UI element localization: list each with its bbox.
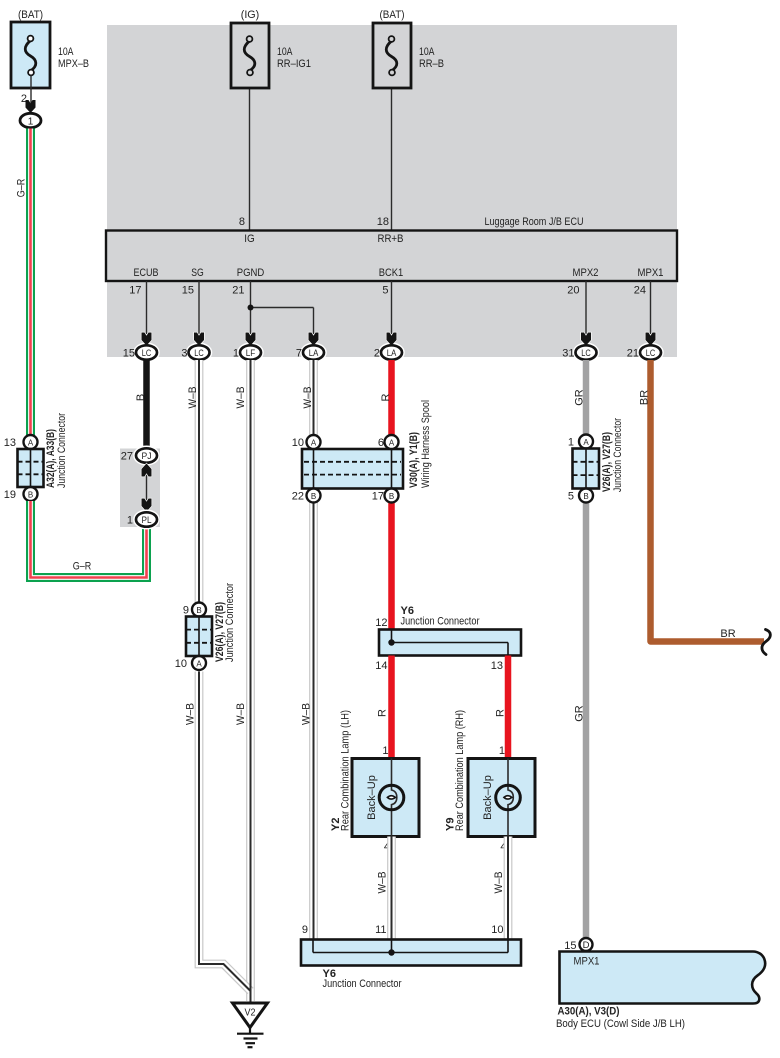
- svg-text:V2: V2: [245, 1008, 256, 1019]
- ground V2: [233, 1003, 268, 1047]
- svg-text:A30(A), V3(D): A30(A), V3(D): [558, 1006, 620, 1018]
- svg-text:W–B: W–B: [377, 872, 389, 894]
- svg-text:BR: BR: [639, 390, 651, 405]
- svg-text:W–B: W–B: [235, 703, 247, 725]
- svg-text:RR–B: RR–B: [419, 58, 444, 70]
- Luggage Room J/B ECU gray background: [107, 25, 677, 357]
- wire W-B below Y2: [387, 837, 396, 941]
- svg-text:LC: LC: [142, 348, 152, 358]
- connector oval 3 LC: [189, 345, 210, 359]
- svg-text:10: 10: [491, 924, 503, 936]
- svg-text:8: 8: [239, 216, 245, 228]
- svg-text:LA: LA: [309, 348, 319, 358]
- PGND center line over merge: [250, 964, 252, 1002]
- wire BCK1 pin to arrow: [391, 281, 393, 334]
- svg-text:W–B: W–B: [302, 387, 314, 409]
- rear combination lamp RH Y9: [444, 710, 535, 853]
- wire break symbol: [762, 630, 770, 655]
- svg-text:D: D: [583, 940, 590, 951]
- Y6 junction connector (bottom): [301, 924, 521, 990]
- svg-text:1: 1: [568, 437, 574, 449]
- svg-text:(BAT): (BAT): [380, 9, 405, 21]
- svg-text:W–B: W–B: [185, 703, 197, 725]
- svg-text:10: 10: [292, 437, 304, 449]
- svg-text:A: A: [196, 660, 202, 669]
- wire W-B from SG: [195, 360, 204, 603]
- svg-text:B: B: [311, 492, 316, 501]
- svg-text:Rear Combination Lamp (LH): Rear Combination Lamp (LH): [339, 710, 351, 831]
- svg-text:21: 21: [232, 285, 244, 297]
- svg-text:GR: GR: [574, 705, 586, 722]
- wire fuse3 to RR+B pin: [391, 76, 393, 230]
- svg-text:BCK1: BCK1: [379, 267, 404, 279]
- svg-text:G–R: G–R: [16, 179, 28, 198]
- svg-text:ECUB: ECUB: [134, 267, 159, 279]
- svg-text:15: 15: [123, 348, 135, 360]
- svg-text:17: 17: [372, 491, 384, 503]
- svg-text:R: R: [380, 393, 392, 401]
- svg-text:10A: 10A: [419, 46, 435, 58]
- svg-text:9: 9: [183, 605, 189, 617]
- svg-text:Wiring Harness Spool: Wiring Harness Spool: [420, 400, 432, 488]
- arrow into connector 1 LF: [246, 333, 256, 346]
- svg-text:R: R: [377, 709, 389, 717]
- svg-text:A: A: [583, 438, 589, 447]
- white halos for connector ovals: [136, 345, 661, 359]
- svg-text:R: R: [495, 709, 507, 717]
- D pin circle 15: [564, 938, 592, 952]
- PJ PL connector pair with shade: [120, 448, 160, 527]
- arrow into connector 3 LC: [194, 333, 204, 346]
- svg-text:Junction Connector: Junction Connector: [401, 616, 480, 628]
- svg-text:Rear Combination Lamp (RH): Rear Combination Lamp (RH): [454, 710, 466, 831]
- svg-text:W–B: W–B: [187, 387, 199, 409]
- arrows into connectors row: [142, 333, 656, 346]
- wire PGND pin to arrow with branch: [250, 281, 252, 334]
- junction dot PGND branch: [248, 305, 254, 311]
- svg-text:Junction Connector: Junction Connector: [56, 413, 68, 488]
- svg-text:1: 1: [28, 117, 34, 128]
- G-R wire from fuse1 down to junction connector: [26, 129, 35, 436]
- svg-text:Back–Up: Back–Up: [366, 775, 378, 820]
- svg-text:5: 5: [382, 285, 388, 297]
- fuse F2 10A RR-IG1: [231, 9, 311, 228]
- connector oval 2 LA: [381, 345, 402, 359]
- connector oval 1: [20, 113, 41, 127]
- svg-text:V30(A), Y1(B): V30(A), Y1(B): [408, 432, 420, 488]
- svg-text:W–B: W–B: [493, 872, 505, 894]
- svg-text:1: 1: [499, 745, 505, 757]
- svg-text:PGND: PGND: [237, 267, 265, 279]
- svg-text:21: 21: [627, 348, 639, 360]
- svg-text:3: 3: [181, 348, 187, 360]
- svg-text:MPX2: MPX2: [573, 267, 599, 279]
- svg-text:10A: 10A: [58, 46, 74, 58]
- svg-text:LC: LC: [581, 348, 591, 358]
- wire B (thick black) ECUB: [143, 360, 150, 449]
- wire MPX1 pin to arrow: [650, 281, 652, 334]
- svg-text:12: 12: [375, 617, 387, 629]
- svg-text:Junction Connector: Junction Connector: [323, 978, 402, 990]
- ECU inner box: [106, 231, 677, 282]
- svg-text:5: 5: [568, 491, 574, 503]
- Y6 junction connector (top): [375, 605, 521, 672]
- SG W-B wire bend to ground merge: [199, 672, 251, 992]
- svg-text:B: B: [196, 606, 201, 615]
- wire W-B below Y9: [504, 837, 513, 941]
- svg-text:B: B: [389, 492, 394, 501]
- svg-text:PJ: PJ: [142, 451, 152, 461]
- svg-text:B: B: [583, 492, 588, 501]
- svg-text:MPX1: MPX1: [638, 267, 664, 279]
- svg-text:1: 1: [127, 515, 133, 527]
- fuse F3 10A RR-B: [373, 9, 444, 228]
- svg-text:W–B: W–B: [301, 703, 313, 725]
- svg-text:RR–IG1: RR–IG1: [277, 58, 311, 70]
- svg-text:W–B: W–B: [235, 387, 247, 409]
- svg-text:SG: SG: [191, 267, 204, 279]
- svg-text:7: 7: [296, 348, 302, 360]
- svg-text:10A: 10A: [277, 46, 293, 58]
- svg-text:11: 11: [375, 924, 386, 936]
- svg-text:LC: LC: [646, 348, 656, 358]
- svg-text:BR: BR: [720, 628, 735, 640]
- svg-text:A: A: [28, 439, 34, 448]
- svg-text:LF: LF: [246, 348, 256, 358]
- connector oval 7 LA: [303, 345, 324, 359]
- svg-text:22: 22: [292, 491, 304, 503]
- svg-text:Luggage Room J/B ECU: Luggage Room J/B ECU: [485, 216, 584, 228]
- wire R from BCK1: [388, 360, 395, 630]
- svg-text:Junction Connector: Junction Connector: [224, 583, 236, 662]
- arrow into connector 15 LC: [142, 333, 152, 346]
- svg-text:(IG): (IG): [241, 9, 260, 21]
- arrow into connector 31 LC: [581, 333, 591, 346]
- svg-text:1: 1: [382, 745, 388, 757]
- svg-text:MPX–B: MPX–B: [58, 58, 89, 70]
- wire R from Y6 to Y9 lamp: [505, 656, 512, 760]
- connector ovals row: [123, 345, 661, 359]
- svg-text:IG: IG: [244, 233, 255, 245]
- arrow into connector 2 LA: [387, 333, 397, 346]
- svg-text:27: 27: [121, 451, 133, 463]
- svg-text:RR+B: RR+B: [378, 233, 404, 245]
- wire R from Y6 to Y2 lamp: [388, 656, 395, 760]
- svg-text:19: 19: [4, 489, 16, 501]
- svg-text:LA: LA: [387, 348, 397, 358]
- wire SG pin to arrow: [198, 281, 200, 334]
- rear combination lamp LH Y2: [330, 710, 419, 853]
- svg-text:(BAT): (BAT): [18, 9, 43, 21]
- svg-text:B: B: [135, 394, 147, 401]
- G-R wire from A33 B to PL: [31, 501, 147, 578]
- svg-text:14: 14: [375, 660, 387, 672]
- junction connector A32(A), A33(B): [4, 127, 68, 501]
- svg-text:MPX1: MPX1: [574, 956, 600, 968]
- connector oval 15 LC: [136, 345, 157, 359]
- junction connector V26(A), V27(B) on GR wire: [568, 418, 624, 503]
- junction connector V26(A), V27(B) on SG wire: [175, 583, 236, 670]
- svg-text:20: 20: [567, 285, 579, 297]
- wire W-B from PGND: [246, 360, 255, 1001]
- wire ECUB pin to arrow: [146, 281, 148, 334]
- svg-text:9: 9: [302, 924, 308, 936]
- svg-text:18: 18: [377, 216, 389, 228]
- svg-text:Body ECU (Cowl Side J/B LH): Body ECU (Cowl Side J/B LH): [556, 1018, 685, 1030]
- arrow into connector 1: [26, 100, 36, 113]
- wire fuse2 to IG pin: [249, 76, 251, 230]
- svg-text:10: 10: [175, 658, 187, 670]
- wire MPX2 pin to arrow: [585, 281, 587, 334]
- wire BR from MPX1: [651, 360, 765, 642]
- svg-text:24: 24: [634, 285, 646, 297]
- svg-text:A: A: [311, 439, 317, 448]
- wiring harness spool V30(A), Y1(B): [292, 400, 432, 503]
- arrow into connector 7 LA: [309, 333, 319, 346]
- svg-text:15: 15: [182, 285, 194, 297]
- svg-text:1: 1: [233, 348, 239, 360]
- svg-text:Back–Up: Back–Up: [482, 775, 494, 820]
- svg-text:6: 6: [378, 437, 384, 449]
- svg-text:13: 13: [4, 437, 16, 449]
- svg-text:LC: LC: [194, 348, 204, 358]
- arrow into connector 21 LC: [646, 333, 656, 346]
- body ECU A30(A), V3(D): [556, 952, 765, 1031]
- fuse F1 10A MPX-B: [11, 9, 89, 105]
- wire GR from MPX2: [583, 360, 590, 938]
- svg-text:2: 2: [374, 348, 380, 360]
- connector oval 21 LC: [640, 345, 661, 359]
- svg-text:B: B: [28, 491, 33, 500]
- wire W-B from LA branch down to bottom junction: [309, 360, 318, 940]
- svg-text:G–R: G–R: [73, 561, 92, 573]
- svg-text:Junction Connector: Junction Connector: [612, 418, 624, 492]
- svg-text:17: 17: [129, 285, 141, 297]
- svg-text:31: 31: [562, 348, 574, 360]
- svg-text:A: A: [389, 439, 395, 448]
- svg-text:PL: PL: [142, 515, 152, 525]
- connector oval 31 LC: [576, 345, 597, 359]
- svg-text:13: 13: [491, 660, 503, 672]
- svg-text:GR: GR: [574, 389, 586, 406]
- connector oval 1 LF: [240, 345, 261, 359]
